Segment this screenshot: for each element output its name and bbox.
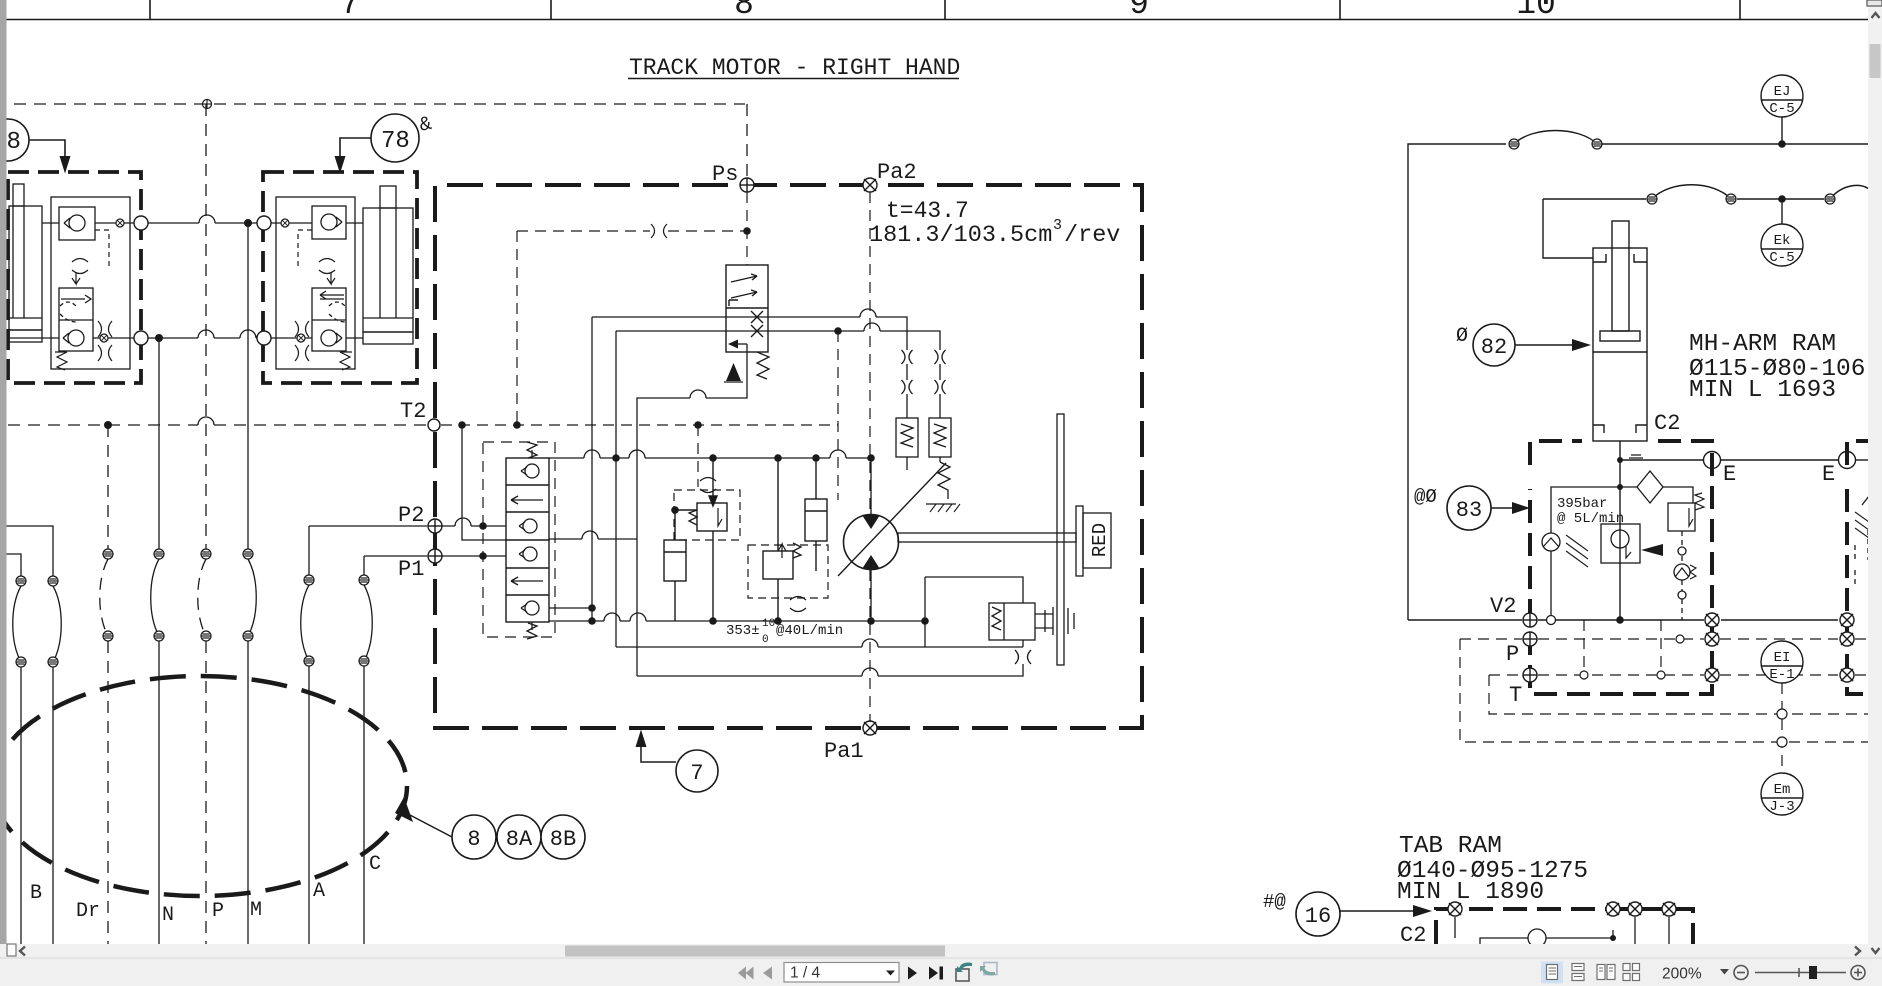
P2/P1 into valve [442, 518, 506, 556]
svg-text:V2: V2 [1490, 594, 1516, 619]
valve outputs and main lines [549, 309, 1023, 676]
block2 wires [271, 223, 363, 338]
svg-text:Ø: Ø [1456, 325, 1468, 348]
P1 line to x=364 [364, 556, 427, 944]
svg-text:181.3/103.5cm: 181.3/103.5cm [869, 222, 1052, 249]
hoses x=21,53 [13, 586, 62, 662]
wires between blocks [148, 215, 257, 338]
bottom line labels [30, 853, 381, 927]
svg-text:MIN L 1693: MIN L 1693 [1689, 377, 1836, 404]
svg-text:EI: EI [1774, 650, 1791, 666]
block1 pilot dashes and orifices [55, 230, 112, 370]
TAB RAM text [1397, 833, 1588, 906]
svg-text:C-5: C-5 [1769, 101, 1794, 117]
parking brake actuator [989, 603, 1074, 640]
MH-ARM RAM cylinder [1593, 221, 1647, 441]
block2 pilot dashes and orifices [295, 230, 352, 370]
left edge ports of block A [1523, 613, 1537, 627]
main control valve (4 section) [506, 458, 549, 622]
arrow into block 2 [335, 156, 346, 174]
vertical line x=248 [248, 223, 256, 944]
svg-text:MIN L 1890: MIN L 1890 [1397, 879, 1544, 906]
svg-text:8: 8 [7, 129, 21, 156]
manifold B internals (clipped) [1855, 496, 1869, 585]
ports on central boundary [740, 178, 754, 192]
manifold block A (bold dashed) [1530, 441, 1712, 694]
svg-text:8: 8 [734, 0, 754, 23]
svg-text:t=43.7: t=43.7 [886, 198, 969, 224]
port labels [712, 160, 917, 764]
right section enclosure lines [1408, 117, 1870, 620]
V2 line [1538, 619, 1838, 621]
svg-text:3: 3 [1053, 217, 1062, 234]
MH-ARM RAM text [1689, 331, 1865, 404]
svg-text:Ek: Ek [1774, 233, 1791, 249]
svg-text:353±: 353± [726, 623, 760, 639]
svg-text:E: E [1723, 462, 1736, 487]
arrow into block 1 [60, 156, 71, 174]
right vertical scrollbar [1868, 0, 1882, 958]
svg-text:78: 78 [381, 128, 410, 155]
svg-text:T2: T2 [400, 399, 426, 424]
prev/next view icons [956, 969, 969, 981]
svg-text:8B: 8B [550, 827, 576, 852]
line cylinder to manifold [1620, 441, 1868, 620]
relief valve 1 [689, 458, 727, 621]
accumulator 2 [805, 458, 827, 571]
relief valve 2 [763, 458, 801, 621]
callout circle 8 (left, clipped) [0, 119, 65, 161]
dashed box around main valve [483, 442, 555, 637]
brake release columns [896, 350, 951, 470]
svg-text:E: E [1822, 462, 1835, 487]
svg-text:10: 10 [762, 618, 775, 630]
big dashed ellipse (hose bundle) [0, 676, 407, 896]
svg-text:TAB RAM: TAB RAM [1399, 833, 1502, 860]
brake pilot loop [925, 577, 1031, 664]
internal pilot dashed: Ps drop and x=517 [441, 192, 870, 722]
svg-text:@Ø: @Ø [1414, 486, 1437, 508]
block2 grease cylinder [363, 186, 413, 344]
svg-text:@40L/min: @40L/min [776, 623, 843, 639]
accumulator 1 [664, 510, 697, 621]
svg-text:7: 7 [690, 761, 703, 786]
svg-text:P2: P2 [398, 503, 424, 528]
svg-text:T: T [1509, 683, 1522, 708]
T2 pilot dashed line [8, 424, 427, 426]
svg-text:RED: RED [1089, 523, 1111, 557]
labels T2 P2 P1 [398, 399, 426, 582]
svg-text:C: C [369, 853, 381, 876]
left edge wires [6, 526, 53, 944]
grid ref circles EJ Ek [1761, 75, 1803, 266]
svg-text:9: 9 [1129, 0, 1149, 23]
callout circle 78 [340, 114, 419, 162]
counterbalance valve block 2 (bold dashed) [263, 172, 417, 383]
nav controls [738, 967, 772, 980]
callout circle 7 with arrow [636, 730, 647, 748]
block1 valve body [51, 197, 130, 369]
vertical line x=206 (dashed) [205, 104, 207, 944]
svg-text:Ps: Ps [712, 162, 738, 187]
manifold block B (bold dashed, clipped right) [1847, 441, 1882, 694]
svg-text:Dr: Dr [76, 900, 100, 923]
grid ref circles EI Em [1761, 641, 1803, 815]
svg-text:8A: 8A [506, 827, 533, 852]
final drive bar [1057, 414, 1064, 665]
vertical line x=108 (dashed) [107, 425, 109, 944]
pilot control valve top [726, 265, 768, 352]
svg-text:#@: #@ [1263, 891, 1286, 913]
svg-text:TRACK MOTOR - RIGHT HAND: TRACK MOTOR - RIGHT HAND [629, 55, 960, 81]
grey page-offset strip left [0, 0, 7, 956]
toolbar [0, 958, 1882, 986]
dashed pilot nets in manifolds [1460, 620, 1868, 773]
TAB internals [1455, 917, 1669, 947]
svg-text:1 / 4: 1 / 4 [790, 965, 821, 982]
svg-text:P: P [212, 900, 224, 923]
TAB manifold top border [1436, 909, 1693, 944]
svg-text:16: 16 [1305, 904, 1331, 929]
svg-text:/rev: /rev [1064, 222, 1120, 249]
svg-text:C2: C2 [1654, 411, 1680, 436]
svg-text:8: 8 [467, 827, 480, 852]
svg-text:MH-ARM RAM: MH-ARM RAM [1689, 331, 1836, 358]
central motor assembly boundary (bold dashed) [435, 185, 1142, 728]
callout circles 8 8A 8B [452, 815, 585, 859]
title TRACK MOTOR - RIGHT HAND [628, 55, 960, 81]
svg-text:83: 83 [1456, 498, 1482, 523]
view mode icons right [1541, 962, 1563, 984]
svg-text:395bar: 395bar [1557, 496, 1607, 512]
svg-text:200%: 200% [1662, 966, 1702, 983]
svg-text:Em: Em [1774, 782, 1791, 798]
svg-text:A: A [313, 880, 325, 903]
svg-text:P1: P1 [398, 557, 424, 582]
vertical line x=159 [151, 338, 159, 944]
block1 grease cylinder [9, 184, 42, 342]
right edge ports [1705, 613, 1719, 627]
node marker on pilot line [203, 100, 212, 109]
svg-text:10: 10 [1516, 0, 1556, 23]
anchor spring + ground [926, 462, 960, 512]
RED label box [1076, 506, 1111, 576]
block1 port circles [134, 216, 148, 230]
svg-text:EJ: EJ [1774, 84, 1791, 100]
block2 port circles [257, 216, 271, 230]
pilot dashed line top [14, 104, 747, 178]
svg-text:0: 0 [762, 634, 769, 646]
svg-text:J-3: J-3 [1769, 799, 1794, 815]
svg-text:M: M [250, 899, 262, 922]
P2 line to x=309 [301, 526, 427, 944]
svg-text:P: P [1506, 642, 1519, 667]
svg-text:C-5: C-5 [1769, 250, 1794, 266]
counterbalance valve block 1 (bold dashed) [8, 172, 141, 383]
ruler strip top: bottom line and ticks [7, 0, 1869, 20]
bottom horizontal scrollbar strip [0, 944, 1868, 958]
svg-text:7: 7 [340, 0, 360, 23]
block2 valve body [276, 197, 355, 369]
lines from pilot valve [637, 344, 747, 676]
spring + pilot tri below valve [757, 352, 769, 379]
block1 wires [10, 223, 134, 338]
svg-text:N: N [162, 904, 174, 927]
motor output shaft [898, 533, 1076, 542]
svg-text:E-1: E-1 [1769, 667, 1794, 683]
track motor Q [844, 515, 899, 570]
svg-text:Pa2: Pa2 [877, 160, 917, 185]
arrow from ellipse to callouts [395, 797, 413, 822]
svg-text:Pa1: Pa1 [824, 739, 864, 764]
svg-text:82: 82 [1481, 335, 1507, 360]
svg-text:B: B [30, 882, 42, 905]
